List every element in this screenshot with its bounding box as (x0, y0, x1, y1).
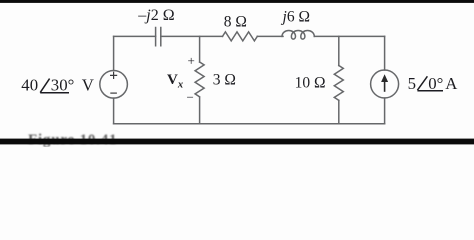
bottom black crop bar (0, 139, 474, 145)
wire 10 Ohm branch lower (338, 100, 340, 123)
svg-text:40: 40 (21, 76, 38, 95)
svg-text:10 Ω: 10 Ω (295, 74, 326, 91)
svg-text:j6 Ω: j6 Ω (281, 8, 310, 25)
wire right branch upper (384, 36, 386, 70)
svg-text:8 Ω: 8 Ω (224, 13, 247, 30)
current source arrow (381, 74, 388, 92)
wire middle branch lower (199, 98, 201, 124)
capacitor -j2 Ohm plates (156, 28, 161, 46)
wire capacitor to resistor 8 Ohm (161, 35, 223, 37)
svg-text:5: 5 (408, 74, 416, 93)
wire 10 Ohm branch upper (338, 36, 340, 65)
wire middle branch upper (199, 36, 201, 62)
voltage source 40/30 V circle (100, 71, 128, 99)
resistor 3 Ohm (195, 62, 204, 97)
wire left branch lower (113, 98, 115, 124)
angle symbol for 40/30 (40, 79, 49, 93)
voltage source minus sign (110, 92, 117, 94)
svg-text:0°: 0° (428, 74, 443, 93)
current source 5/0 A circle (371, 70, 399, 98)
svg-text:V: V (82, 76, 94, 95)
svg-text:A: A (445, 74, 457, 93)
svg-text:30°: 30° (51, 75, 75, 94)
resistor 10 Ohm (334, 66, 343, 101)
wire inductor to top-right corner (314, 35, 384, 37)
resistor 8 Ohm (223, 32, 258, 41)
wire top left segment (114, 35, 156, 37)
angle symbol for 5/0 (417, 76, 427, 90)
wire resistor 8 Ohm to inductor (257, 35, 283, 37)
svg-text:3 Ω: 3 Ω (213, 71, 236, 88)
top black crop bar (0, 0, 474, 3)
svg-text:+: + (188, 53, 195, 68)
wire left branch upper (113, 36, 115, 70)
inductor j6 Ohm (282, 31, 314, 40)
svg-text:–j2 Ω: –j2 Ω (137, 7, 174, 24)
voltage source plus sign (110, 72, 117, 79)
wire bottom (114, 123, 385, 125)
wire right branch lower (384, 98, 386, 124)
svg-text:−: − (187, 90, 194, 105)
cropped figure caption text (28, 132, 117, 148)
